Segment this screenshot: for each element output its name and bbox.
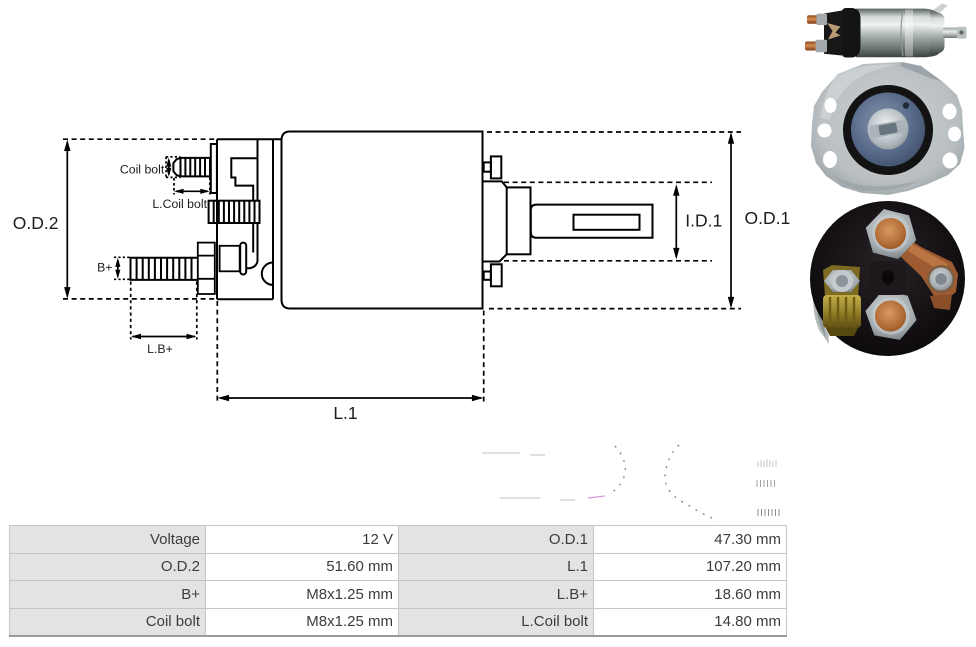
photo3 right nut xyxy=(930,268,953,291)
photo3 copper lower tab xyxy=(930,294,952,310)
coil terminal stud thread bars xyxy=(214,201,255,223)
photo3 black disc xyxy=(810,201,965,356)
photo2 plate lower shadow xyxy=(834,176,922,191)
B+ dotted box xyxy=(114,257,131,279)
photo3 left nut inner xyxy=(836,275,848,287)
B+ hex nut xyxy=(198,243,215,294)
O.D.1 top dashed xyxy=(487,131,741,133)
svg-text:I.D.1: I.D.1 xyxy=(685,210,722,230)
photo1 cap label patch xyxy=(827,23,841,40)
L.1 left extension xyxy=(216,301,218,403)
photo3 bottom hex nut xyxy=(861,289,920,342)
photo2 plate top dark edge xyxy=(900,62,943,82)
photo3 brass bottom lip xyxy=(826,328,858,336)
plunger slot xyxy=(574,215,640,230)
photo2 hub slot xyxy=(869,119,907,138)
bottom screw small xyxy=(484,272,491,280)
O.D.1 dimension xyxy=(730,135,732,307)
photo2 plate shading xyxy=(820,64,896,120)
photo3 top hex nut xyxy=(860,206,921,262)
flange right edge upper segment xyxy=(257,139,259,200)
coil bolt nose xyxy=(173,158,180,177)
photo2 blue core xyxy=(851,93,925,167)
photo2 hole left3 xyxy=(823,151,837,168)
top screw big xyxy=(491,156,501,178)
photo2 hole right2 xyxy=(948,127,961,142)
flange bottom edge xyxy=(217,298,273,300)
flange right edge lower segment xyxy=(257,223,259,262)
watermark barcode marks group2 xyxy=(757,480,775,487)
photo1 shaft collar xyxy=(957,27,967,39)
spec table xyxy=(9,525,787,637)
end cap hub bottom edge xyxy=(483,254,506,261)
coil terminal stud threads outline xyxy=(209,201,260,223)
photo3 top washer xyxy=(873,215,910,252)
photo1 main cylinder xyxy=(856,9,939,58)
svg-text:B+: B+ xyxy=(97,261,112,275)
bracket staircase cutout xyxy=(231,158,257,200)
dimension lines with arrowheads xyxy=(64,132,734,401)
photo1 bottom stud xyxy=(805,42,822,51)
photo3 top copper xyxy=(875,218,906,249)
photo3 brass upper wing xyxy=(823,265,860,298)
watermark barcode marks group1 xyxy=(758,459,776,467)
I.D.1 top dashed xyxy=(504,181,712,183)
photo1 black cap xyxy=(824,11,842,56)
photo1 top tab xyxy=(934,4,948,13)
L.1 dimension xyxy=(220,397,481,399)
watermark barcode marks group3 xyxy=(758,509,779,516)
photo1 cylinder seam line xyxy=(901,10,903,56)
photo2 hub slot hole xyxy=(878,123,897,136)
watermark right paren curve xyxy=(610,446,625,494)
photo3 side sliver dark xyxy=(816,304,826,338)
photo2 black ring xyxy=(843,85,933,175)
L.B+ left extension xyxy=(130,282,132,340)
photo3 side sliver xyxy=(813,283,829,344)
L.1 right extension xyxy=(483,311,485,404)
photo1 right crimp xyxy=(930,11,945,55)
flange plate left edge xyxy=(216,139,218,299)
photo1 top stud xyxy=(807,15,823,24)
L.B+ dimension xyxy=(133,336,196,338)
coil bolt backing plate xyxy=(211,144,217,193)
photo1 cylinder seam xyxy=(905,10,913,57)
notch semicircle xyxy=(262,263,273,285)
photo2 hole right3 xyxy=(943,153,958,169)
photo3 right washer xyxy=(927,265,955,293)
photo3 center block xyxy=(869,261,906,295)
photo3 bottom copper xyxy=(875,301,906,332)
Coil bolt dimension xyxy=(168,160,170,174)
B+ dimension xyxy=(117,260,119,277)
B+ pin capsule xyxy=(240,243,246,275)
fillet curve xyxy=(246,262,257,269)
L.B+ right extension xyxy=(196,282,198,340)
L.Coil bolt dimension xyxy=(176,190,208,192)
photo1 top stud nut xyxy=(817,14,828,26)
I.D.1 dimension xyxy=(675,187,677,258)
end cap hub top edge xyxy=(483,181,506,187)
coil bolt thread block xyxy=(181,158,211,177)
photo3 left nut xyxy=(831,270,853,292)
photo2 small hole xyxy=(903,102,909,108)
coil bolt dotted box xyxy=(166,157,180,178)
svg-text:Coil bolt: Coil bolt xyxy=(120,163,165,177)
photo1 black boot ring xyxy=(841,8,861,58)
O.D.1 bottom dashed xyxy=(489,308,741,310)
dashed dimension extension lines xyxy=(63,132,741,403)
photo2 hole left1 xyxy=(825,98,837,113)
photo1 bottom stud nut xyxy=(816,40,828,52)
flange top edge xyxy=(217,138,282,140)
watermark left paren curve xyxy=(665,445,718,521)
photo1 shaft hole xyxy=(959,30,963,34)
end cap shoulder block xyxy=(507,187,531,254)
O.D.2 bottom dashed xyxy=(63,298,217,300)
svg-text:O.D.2: O.D.2 xyxy=(13,213,59,233)
photo2 flange plate xyxy=(811,62,965,195)
bottom screw big xyxy=(491,264,502,286)
photo3 copper strap highlight xyxy=(908,244,948,272)
B+ nut facet lines xyxy=(198,256,215,279)
photo3 left nut hex xyxy=(824,270,860,292)
B+ spacer cylinder xyxy=(220,246,240,271)
watermark faint dashes xyxy=(482,453,575,500)
I.D.1 bottom dashed xyxy=(504,260,712,262)
svg-text:L.B+: L.B+ xyxy=(147,342,173,356)
photo3 center hole xyxy=(882,271,894,285)
photo1 shaft xyxy=(943,28,966,39)
photo3 right nut inner xyxy=(935,273,947,285)
photo3 brass ridges xyxy=(830,297,854,326)
photo2 hole right1 xyxy=(943,104,957,120)
plunger shaft xyxy=(531,205,653,238)
watermark magenta dashes xyxy=(588,496,605,498)
svg-text:L.Coil bolt: L.Coil bolt xyxy=(152,197,207,211)
coil bolt thread bars xyxy=(185,158,205,177)
svg-text:L.1: L.1 xyxy=(333,403,357,423)
photo3 bottom washer xyxy=(873,298,910,335)
solenoid body (main cylinder outline) xyxy=(282,132,483,309)
bracket inner vertical below cutout xyxy=(252,223,254,253)
O.D.2 top dashed xyxy=(63,138,217,140)
photo3 copper strap xyxy=(900,237,958,300)
flange inner plate line xyxy=(272,139,274,299)
svg-text:O.D.1: O.D.1 xyxy=(745,208,791,228)
B+ stud threads outline xyxy=(131,258,198,280)
photo3 brass block xyxy=(823,295,861,328)
photo2 hub xyxy=(868,109,909,150)
O.D.2 dimension xyxy=(66,142,68,297)
drawing labels xyxy=(13,163,790,424)
photo2 hole left2 xyxy=(818,124,832,138)
top screw small xyxy=(484,162,491,171)
B+ stud thread bars xyxy=(137,258,192,280)
L.Coil bolt extensions xyxy=(174,178,210,195)
